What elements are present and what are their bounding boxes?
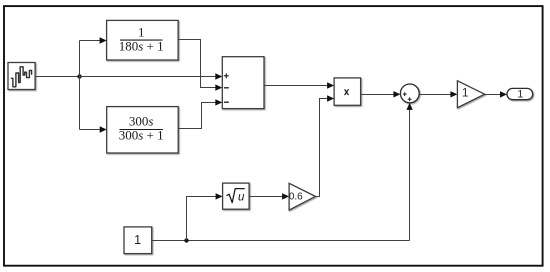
wire: bottom line up into Add circle bottom input (406, 103, 412, 241)
outport 1 (507, 88, 533, 100)
product block P1 (x) (334, 78, 361, 105)
wire: Gain to Outport (485, 91, 507, 97)
constant block K1 value 1 (124, 227, 152, 254)
source block Band-Limited White Noise (8, 63, 35, 90)
wire: source output to junction (35, 76, 79, 78)
svg-text:1: 1 (517, 89, 523, 101)
node: junction on constant line (184, 238, 188, 242)
wire: Product output to Add circle (361, 91, 401, 97)
svg-text:180s + 1: 180s + 1 (119, 39, 164, 54)
label: plus sign left input (403, 92, 407, 96)
label: minus sign port 3 (224, 101, 229, 103)
wire: Add circle output to Gain (419, 91, 457, 97)
svg-text:1: 1 (462, 86, 469, 100)
sum circle A1 (+ +) (400, 84, 419, 103)
wire: Sqrt output to Gain 0.6 (249, 193, 289, 199)
node: branch junction at source line (77, 74, 81, 78)
wire: junction to TF2 input (80, 126, 107, 132)
sum block S1 (+ - -) (222, 57, 264, 109)
label: plus sign port 1 (224, 73, 229, 78)
wire: junction up to Sqrt input (187, 193, 223, 240)
svg-text:300s + 1: 300s + 1 (119, 127, 164, 142)
wire: TF1 output to Sum minus input 1 (178, 40, 222, 91)
transfer function U1 1/(180s+1) (107, 20, 179, 60)
sqrt block Q1 (223, 183, 250, 209)
transfer function U2 300s/(300s+1) (107, 107, 179, 153)
wire: junction vertical branch (79, 41, 81, 130)
wire: Constant output along bottom to Add circle vertical (152, 240, 410, 242)
gain G2 value 0.6 (289, 183, 316, 210)
wire: junction to TF1 input (80, 37, 107, 43)
wire: TF2 output to Sum minus input 2 (178, 99, 222, 128)
label: plus sign bottom input (408, 97, 412, 101)
svg-text:0.6: 0.6 (289, 192, 303, 203)
svg-text:300s: 300s (129, 114, 154, 129)
svg-text:u: u (238, 191, 245, 203)
gain G1 value 1 (457, 81, 484, 108)
wire: junction straight to Sum plus input (80, 73, 223, 79)
svg-text:1: 1 (134, 233, 141, 247)
wire: Gain 0.6 up to Product input 2 (315, 95, 334, 196)
wire: Sum output to Product input 1 (264, 82, 334, 88)
label: minus sign port 2 (224, 87, 229, 89)
svg-text:1: 1 (138, 24, 145, 39)
